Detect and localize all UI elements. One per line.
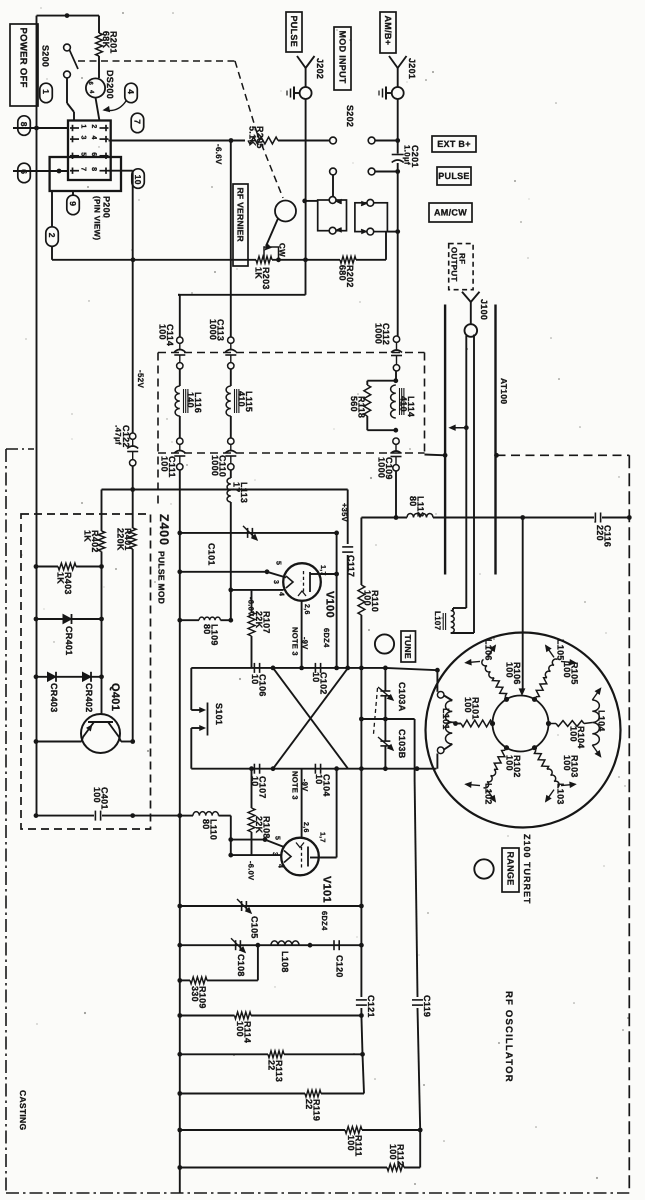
svg-text:10: 10: [314, 774, 324, 785]
svg-text:4: 4: [278, 592, 285, 596]
wire C103 box down: [414, 719, 416, 769]
svg-text:410: 410: [399, 396, 409, 412]
wire left rail S200: [36, 16, 38, 128]
svg-text:-9V: -9V: [301, 637, 310, 650]
label EXT B+: [432, 136, 476, 152]
capacitor C116 220: [594, 513, 596, 523]
capacitor C122 .47uf (feed-through): [130, 433, 136, 439]
cross coupling diagonals: [273, 668, 348, 769]
capacitor C103B variable: [384, 719, 386, 741]
wire return to left rail: [305, 260, 307, 295]
wire to L114: [395, 371, 397, 381]
svg-text:1K: 1K: [83, 530, 93, 542]
svg-text:+35V: +35V: [340, 503, 349, 522]
turret Z100 outer circle: [426, 633, 621, 828]
resistor R202 680: [303, 257, 308, 262]
svg-text:10: 10: [250, 674, 260, 685]
arrow from tag 4 to DS200: [104, 101, 126, 111]
resistor R108 22K: [251, 769, 253, 808]
capacitor C104 10: [314, 764, 316, 774]
capacitor C121: [360, 945, 362, 997]
wire V101 grid row: [231, 854, 282, 856]
switch S202 contact b: [368, 137, 375, 144]
svg-text:100: 100: [505, 662, 515, 678]
wire V100 plate to coupling: [310, 573, 321, 575]
shield boundary dashed upper: [158, 352, 425, 354]
wire +35V row: [361, 517, 407, 519]
switch S202 row2 contact a: [330, 168, 337, 175]
svg-text:100: 100: [158, 324, 168, 340]
svg-text:L102: L102: [484, 783, 494, 805]
svg-text:100: 100: [463, 697, 473, 713]
svg-text:680: 680: [338, 265, 348, 281]
svg-text:RF VERNIER: RF VERNIER: [235, 188, 245, 242]
node tag 9: [72, 191, 74, 196]
wire shield to attenuator: [425, 454, 446, 457]
resistor R203 1K: [256, 256, 272, 263]
inductor L115 410 (iron core): [230, 369, 232, 386]
svg-text:L103: L103: [556, 783, 566, 805]
svg-text:9: 9: [68, 201, 78, 206]
label AM/CW: [429, 203, 472, 222]
svg-text:C103A: C103A: [397, 682, 407, 712]
svg-text:3: 3: [80, 136, 87, 140]
inductor L107 (iron core): [453, 607, 466, 609]
C103B plates: [380, 740, 390, 742]
jack J100: [465, 324, 478, 337]
inductor L108: [271, 941, 299, 945]
resistor R106 100 / inductor L106: [504, 697, 509, 702]
gang link dashed C103: [374, 688, 378, 734]
svg-text:Z400: Z400: [157, 514, 171, 546]
left rail x36: [36, 128, 38, 816]
C103B arrow: [378, 737, 393, 750]
capacitor C108 variable: [235, 940, 237, 950]
wire P200 pin7 row: [13, 170, 68, 172]
svg-text:5: 5: [275, 561, 282, 565]
capacitor C103A variable: [384, 668, 386, 691]
svg-text:S101: S101: [214, 703, 224, 725]
wire contact a down: [332, 175, 334, 197]
wire pin8 to -52V line: [109, 170, 133, 172]
J201 bypass to ground: [386, 92, 392, 94]
inductor L114 410 (iron core): [391, 385, 396, 418]
svg-text:100: 100: [346, 1135, 356, 1151]
diode CR402: [79, 676, 102, 678]
capacitor C117: [347, 490, 349, 545]
svg-text:1,7: 1,7: [319, 832, 326, 843]
P200 pins: [70, 127, 79, 129]
connector P200 body: [68, 121, 111, 181]
wire pin5 row V101: [231, 839, 265, 841]
C103A arrow: [378, 687, 393, 700]
svg-text:C120: C120: [335, 955, 345, 978]
capacitor C120: [333, 940, 335, 950]
svg-text:DS200: DS200: [105, 70, 115, 99]
svg-text:-52V: -52V: [136, 370, 145, 388]
svg-text:.47µf: .47µf: [114, 425, 123, 445]
capacitor C107 10: [253, 764, 255, 774]
svg-text:330: 330: [190, 986, 200, 1002]
wire x180 rail top: [179, 295, 181, 337]
label RF OUTPUT (dashed): [449, 244, 473, 290]
node tag 10: [132, 169, 145, 189]
inductor L110 80: [177, 813, 182, 818]
svg-text:2,6: 2,6: [303, 604, 310, 615]
resistor R111 100: [177, 1128, 182, 1133]
svg-text:6: 6: [87, 82, 94, 86]
svg-text:8: 8: [90, 167, 97, 171]
wire top rail: [37, 15, 100, 17]
S202 wafer section 2: [355, 203, 388, 232]
label RANGE: [502, 848, 519, 892]
wire x231 segment V101: [230, 816, 232, 856]
svg-text:4: 4: [126, 89, 136, 94]
svg-text:C103B: C103B: [397, 729, 407, 759]
svg-text:4: 4: [90, 136, 97, 140]
svg-text:Q401: Q401: [109, 683, 121, 711]
wire R202 up to S202: [385, 232, 387, 260]
svg-text:1K: 1K: [254, 267, 264, 279]
svg-text:C117: C117: [346, 555, 356, 577]
label AM/B+: [380, 12, 396, 53]
svg-text:5: 5: [80, 152, 87, 156]
svg-text:C105: C105: [250, 916, 260, 939]
pot wiper to CW tap: [266, 219, 278, 247]
row C108/L108/C120: [177, 943, 182, 948]
svg-text:MOD INPUT: MOD INPUT: [337, 31, 347, 84]
svg-text:P200: P200: [102, 196, 112, 218]
svg-text:CR401: CR401: [64, 626, 74, 656]
wire -52V line: [132, 171, 134, 433]
resistor R205 5.1K: [248, 137, 278, 144]
module Z400 box (dashed): [21, 514, 151, 829]
mechanical link S200 to RF VERNIER (dashed): [78, 60, 235, 62]
svg-text:1000: 1000: [374, 323, 384, 344]
capacitor C101 variable: [247, 528, 249, 538]
svg-text:5: 5: [274, 836, 281, 840]
wire P200 pin1 row: [13, 127, 68, 129]
svg-text:100: 100: [569, 726, 579, 742]
resistor R103 100 / inductor L103: [532, 745, 537, 750]
svg-text:RF OSCILLATOR: RF OSCILLATOR: [503, 991, 514, 1083]
turret Z100 inner circle: [493, 696, 549, 752]
svg-text:C119: C119: [422, 995, 432, 1017]
wire mid row to C103: [359, 717, 364, 722]
wire V100 grid row: [228, 588, 233, 593]
svg-text:L101: L101: [441, 708, 451, 730]
svg-text:100: 100: [388, 1144, 398, 1160]
svg-text:100: 100: [92, 787, 102, 803]
switch S101: [190, 668, 192, 710]
resistor R118 560: [367, 380, 396, 382]
svg-text:PULSE: PULSE: [438, 171, 470, 181]
jack J202: [297, 56, 306, 68]
svg-text:6: 6: [90, 152, 97, 156]
tube V101 6DZ4: [281, 838, 319, 876]
wire Z400 pulse out: [102, 489, 348, 491]
svg-text:-6.0V: -6.0V: [247, 861, 256, 880]
svg-text:OUTPUT: OUTPUT: [450, 247, 459, 282]
svg-text:1: 1: [80, 124, 87, 128]
svg-text:1.0µf: 1.0µf: [403, 145, 412, 165]
svg-text:4: 4: [277, 864, 284, 868]
J100 center conductor left: [465, 336, 467, 609]
node tag 7: [131, 113, 144, 133]
S202 wafer section 1: [318, 200, 347, 231]
svg-text:L107: L107: [433, 611, 442, 631]
svg-text:S200: S200: [41, 45, 51, 67]
wire x180 rail lower: [179, 470, 181, 1193]
svg-text:410: 410: [237, 391, 247, 407]
svg-text:J100: J100: [479, 299, 489, 320]
casting boundary top stub: [6, 448, 34, 450]
knob TUNE: [375, 634, 394, 653]
turret feed from +35V: [522, 518, 524, 690]
svg-text:CW: CW: [278, 243, 287, 257]
resistor R104 100 / inductor L104: [546, 721, 551, 726]
svg-text:100: 100: [363, 590, 373, 606]
CW tap loop on R203: [264, 247, 279, 260]
svg-text:V101: V101: [321, 876, 333, 903]
svg-text:CR402: CR402: [84, 683, 94, 713]
wire pin5 row V100: [177, 569, 182, 574]
capacitor C110 1000 (feed-through): [228, 438, 234, 444]
diode CR403: [34, 674, 39, 679]
wire V101 cathode up: [301, 769, 303, 838]
svg-text:1000: 1000: [208, 319, 218, 340]
resistor R402 1K: [98, 531, 105, 552]
wire x231 rail top: [230, 141, 232, 338]
svg-text:PULSE: PULSE: [289, 16, 299, 48]
svg-text:3: 3: [272, 580, 279, 584]
switch S200: [64, 44, 71, 51]
svg-text:7: 7: [133, 119, 143, 124]
inductor L101 (selected): [446, 701, 453, 745]
svg-text:100: 100: [160, 456, 170, 472]
capacitor C112 1000 (feed-through): [393, 336, 399, 342]
node tag 1: [40, 83, 53, 103]
node tag 6: [18, 163, 31, 183]
capacitor C113 1000 (feed-through): [228, 337, 234, 343]
resistor R113 22: [177, 1052, 182, 1057]
svg-text:1: 1: [41, 89, 51, 94]
svg-text:(PIN VIEW): (PIN VIEW): [93, 196, 102, 240]
svg-text:8: 8: [19, 122, 29, 127]
switch S202 contact a: [330, 137, 337, 144]
node tag 8: [18, 116, 31, 136]
svg-text:C121: C121: [366, 995, 376, 1018]
svg-text:AT100: AT100: [499, 378, 509, 404]
svg-text:100: 100: [562, 755, 572, 771]
svg-text:17: 17: [232, 482, 242, 493]
svg-text:J202: J202: [315, 58, 325, 79]
svg-text:CR403: CR403: [49, 683, 59, 713]
svg-text:L104: L104: [597, 710, 607, 732]
svg-text:22K: 22K: [254, 611, 264, 629]
svg-text:68K: 68K: [101, 31, 111, 49]
wire C122 down to Z400: [132, 466, 134, 528]
svg-text:AM/B+: AM/B+: [383, 16, 393, 46]
inductor L112 80: [407, 513, 433, 517]
svg-text:2,6: 2,6: [302, 822, 309, 833]
svg-text:POWER OFF: POWER OFF: [18, 28, 29, 88]
label MOD INPUT: [334, 27, 351, 90]
wire V101 plate up: [310, 857, 321, 859]
svg-text:10: 10: [133, 175, 143, 185]
casting border left: [5, 449, 7, 1193]
capacitor C109 1000 (feed-through): [393, 438, 399, 444]
capacitor C105 variable: [177, 904, 182, 909]
svg-text:NOTE 3: NOTE 3: [291, 771, 300, 800]
diode CR401: [34, 617, 39, 622]
wire J201 down: [397, 99, 399, 154]
resistor R102 100 / inductor L102: [504, 745, 509, 750]
svg-text:EXT B+: EXT B+: [437, 139, 471, 149]
inductor L109 80: [177, 618, 182, 623]
wire C401 row to x180 rail: [133, 815, 180, 817]
wire bias row y260: [52, 259, 256, 261]
RF oscillator boundary dashed top: [497, 454, 630, 456]
svg-text:10: 10: [311, 672, 321, 683]
svg-text:100: 100: [505, 755, 515, 771]
svg-text:22: 22: [267, 1060, 277, 1071]
wire C101 row: [177, 531, 182, 536]
svg-text:560: 560: [349, 396, 359, 412]
svg-text:2: 2: [47, 233, 57, 238]
label RF VERNIER: [233, 184, 248, 266]
wire coupling row upper: [191, 667, 385, 669]
turret contact stubs: [436, 670, 438, 692]
inductor L113 17: [230, 470, 232, 478]
svg-text:22K: 22K: [254, 816, 264, 834]
RF oscillator boundary right: [628, 455, 630, 1193]
potentiometer RF vernier: [275, 201, 296, 222]
svg-text:5.1K: 5.1K: [248, 126, 258, 146]
svg-text:L106: L106: [484, 639, 494, 661]
wire V100 cathode down: [301, 601, 303, 668]
svg-text:V100: V100: [324, 591, 336, 618]
jack J201: [389, 56, 398, 68]
svg-text:1000: 1000: [377, 457, 387, 478]
node tag 4: [125, 83, 138, 103]
resistor R401 220K: [129, 528, 136, 549]
svg-text:L105: L105: [556, 639, 566, 661]
switch S202 row2 contact b: [368, 168, 375, 175]
jack J100 fork: [462, 292, 471, 302]
svg-text:AM/CW: AM/CW: [434, 208, 467, 218]
capacitor C119: [414, 769, 416, 780]
inductor L116 140 (iron core): [179, 369, 181, 386]
resistor R114 100: [177, 1013, 182, 1018]
connector P200 outer shell: [50, 157, 121, 191]
svg-text:6DZ4: 6DZ4: [320, 911, 329, 931]
capacitor C114 100 (feed-through): [177, 337, 183, 343]
resistor R110 100: [360, 518, 362, 586]
svg-text:7: 7: [80, 167, 87, 171]
wire J202 down: [305, 99, 307, 260]
svg-text:100: 100: [562, 662, 572, 678]
wire upper coupling to turret: [435, 668, 440, 673]
svg-text:4: 4: [88, 90, 95, 94]
svg-text:CASTING: CASTING: [18, 1090, 28, 1130]
transistor Q401: [81, 714, 120, 753]
svg-text:2: 2: [90, 124, 97, 128]
svg-text:6: 6: [19, 169, 29, 174]
attenuator outer line right: [494, 305, 496, 575]
svg-text:-6.6V: -6.6V: [214, 144, 223, 165]
svg-text:RANGE: RANGE: [505, 852, 515, 886]
capacitor C111 100 (feed-through): [177, 438, 183, 444]
wire wafer2 to main line: [387, 231, 397, 233]
resistor R101 100 (selected spoke): [490, 721, 495, 726]
svg-text:1000: 1000: [210, 455, 220, 476]
node tag 2: [51, 191, 53, 227]
label PULSE (top): [286, 12, 302, 52]
casting border bottom: [6, 1192, 629, 1194]
J202 bypass to ground: [294, 92, 300, 94]
svg-text:NOTE 3: NOTE 3: [291, 627, 300, 656]
svg-text:140: 140: [186, 392, 196, 408]
attenuator outer line left: [444, 305, 446, 575]
lamp DS200: [86, 78, 105, 97]
svg-text:220K: 220K: [116, 528, 126, 551]
capacitor C201 1.0uf: [395, 169, 400, 174]
svg-text:80: 80: [201, 819, 211, 830]
wire C121 column to R113 row: [361, 1016, 362, 1055]
svg-text:S202: S202: [345, 105, 355, 127]
svg-text:TUNE: TUNE: [403, 635, 413, 659]
wire J202 to wafer1: [306, 200, 318, 202]
label TUNE: [401, 631, 416, 662]
resistor R105 100 / inductor L105: [532, 697, 537, 702]
knob RANGE: [474, 859, 493, 878]
wire x361 through coupling rows: [360, 668, 362, 769]
svg-text:100: 100: [235, 1021, 245, 1037]
resistor R112 100: [177, 1165, 182, 1170]
svg-text:22: 22: [304, 1099, 314, 1110]
resistor R201 68K: [98, 16, 100, 33]
wire C109 to +35V row: [395, 471, 397, 518]
svg-text:L108: L108: [280, 951, 290, 973]
svg-text:PULSE MOD: PULSE MOD: [157, 551, 167, 604]
capacitor C106 10: [253, 663, 255, 673]
svg-text:C101: C101: [207, 543, 217, 566]
J100 center conductor right: [473, 335, 475, 634]
svg-text:Z100 TURRET: Z100 TURRET: [522, 834, 532, 905]
svg-text:80: 80: [408, 496, 418, 507]
svg-text:220: 220: [595, 525, 605, 541]
svg-text:C108: C108: [236, 954, 246, 977]
wire coupling row lower: [191, 768, 436, 770]
svg-text:1K: 1K: [56, 572, 66, 584]
svg-text:80: 80: [202, 624, 212, 635]
resistor R109 330: [257, 945, 259, 980]
wire -6.6V bias: [109, 140, 246, 142]
resistor R107 22K: [251, 590, 253, 612]
label POWER OFF: [10, 24, 38, 106]
pickup arrow: [464, 425, 469, 430]
resistor R403 1K: [34, 564, 39, 569]
capacitor C102 10: [314, 663, 316, 673]
svg-text:J201: J201: [407, 58, 417, 79]
tube V100 6DZ4: [283, 563, 321, 601]
label PULSE (positions): [437, 167, 471, 185]
resistor R119 22: [177, 1091, 182, 1096]
svg-text:6DZ4: 6DZ4: [322, 628, 331, 648]
capacitor C401 100: [34, 813, 39, 818]
